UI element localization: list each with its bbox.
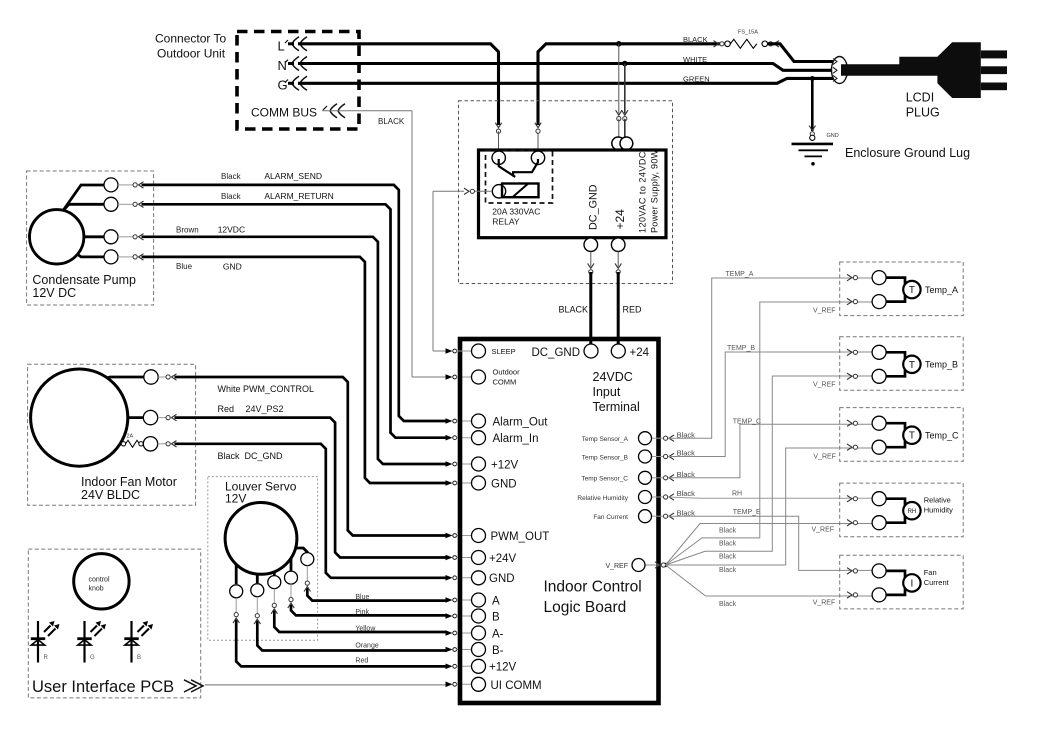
sensor Relative Humidity element xyxy=(903,502,920,519)
wire TEMP_B xyxy=(668,352,872,457)
sensor Temp_C terminal bottom xyxy=(872,440,886,454)
sensor Fan Current entry bottom xyxy=(847,592,858,598)
pin GND xyxy=(472,476,486,490)
wire plug to ground lug xyxy=(810,76,815,81)
svg-text:R: R xyxy=(44,655,49,661)
wire ALARM_RETURN xyxy=(118,203,134,205)
louver servo box xyxy=(208,477,318,641)
wire Orange to B- xyxy=(256,597,258,616)
wire motor DC_GND xyxy=(158,443,167,445)
relay coil xyxy=(502,184,539,198)
svg-text:L: L xyxy=(278,39,285,54)
connector box to outdoor unit xyxy=(237,32,359,130)
svg-text:20A 330VAC: 20A 330VAC xyxy=(492,207,540,217)
pin +24V xyxy=(472,551,486,565)
transformer xyxy=(612,137,625,150)
pump terminal alarm_return xyxy=(104,197,118,211)
sensor Temp_C element xyxy=(903,427,920,444)
svg-text:T: T xyxy=(909,360,915,371)
motor terminal pwm xyxy=(144,370,158,384)
servo terminal blue xyxy=(301,553,314,566)
svg-text:UI COMM: UI COMM xyxy=(491,680,542,692)
sensor Temp_C terminal top xyxy=(872,416,886,430)
pin Temp Sensor_A xyxy=(652,437,665,439)
svg-text:TEMP_E: TEMP_E xyxy=(733,509,761,516)
sensor Temp_C bracket xyxy=(886,423,905,447)
sensor Relative Humidity entry top xyxy=(847,496,858,502)
svg-text:control: control xyxy=(89,577,110,584)
sensor box Temp_C xyxy=(840,408,964,462)
sensor Temp_B terminal bottom xyxy=(872,369,886,383)
svg-text:RH: RH xyxy=(908,509,917,515)
sensor Relative Humidity terminal top xyxy=(872,492,886,506)
sensor Temp_A bracket xyxy=(886,278,905,302)
svg-text:Relative Humidity: Relative Humidity xyxy=(577,495,628,502)
svg-text:Humidity: Humidity xyxy=(924,506,953,515)
svg-text:12VDC: 12VDC xyxy=(218,225,245,235)
sensor Temp_B bracket xyxy=(886,352,905,376)
svg-text:DC_GND: DC_GND xyxy=(245,451,284,461)
wire Blue to A xyxy=(306,566,308,583)
relay contact terminal 1 xyxy=(492,151,505,164)
relay sub-box xyxy=(486,151,553,204)
svg-text:BLACK: BLACK xyxy=(683,35,708,44)
svg-text:Red: Red xyxy=(355,658,368,665)
svg-text:+24: +24 xyxy=(630,347,650,359)
svg-text:A: A xyxy=(492,596,500,608)
svg-text:V_REF: V_REF xyxy=(813,600,836,607)
wire G to plug (GREEN) xyxy=(298,78,833,83)
svg-text:+12V: +12V xyxy=(491,460,519,472)
relay switch contacts xyxy=(499,159,516,177)
svg-text:GND: GND xyxy=(223,261,242,271)
svg-text:12V DC: 12V DC xyxy=(32,286,76,300)
pin A xyxy=(472,593,486,607)
svg-text:DC_GND: DC_GND xyxy=(531,347,580,359)
pin Alarm_Out xyxy=(472,414,486,428)
svg-text:LCDI: LCDI xyxy=(906,91,934,105)
svg-text:GREEN: GREEN xyxy=(683,75,710,84)
pin Fan Current xyxy=(652,515,665,517)
LED G xyxy=(77,621,106,663)
svg-text:Temp Sensor_A: Temp Sensor_A xyxy=(582,436,629,443)
pin Relative Humidity xyxy=(652,496,665,498)
sensor box Fan Current xyxy=(840,555,964,609)
wire relay to fuse (BLACK) xyxy=(537,131,539,152)
wire TEMP_A xyxy=(668,278,872,438)
plug prong 3 xyxy=(981,83,1007,91)
pin +12V2 xyxy=(472,659,486,673)
pin DC_GND input xyxy=(584,344,598,358)
svg-text:B: B xyxy=(137,655,141,661)
sensor Temp_C entry bottom xyxy=(847,444,858,450)
svg-text:White PWM_CONTROL: White PWM_CONTROL xyxy=(218,384,315,394)
wire supply DC_GND to board (BLACK) xyxy=(590,252,592,267)
svg-text:Temp_C: Temp_C xyxy=(925,431,959,441)
svg-text:GND: GND xyxy=(491,479,517,491)
louver servo body xyxy=(225,503,297,575)
svg-text:ALARM_SEND: ALARM_SEND xyxy=(264,171,322,181)
svg-text:PLUG: PLUG xyxy=(906,106,940,120)
pump terminal alarm_send xyxy=(104,178,118,192)
svg-text:B-: B- xyxy=(492,645,504,657)
wire 24V_PS2 xyxy=(158,417,167,419)
wire Pink to B xyxy=(290,584,292,599)
supply output terminal DC_GND xyxy=(584,238,598,252)
sensor Temp_A terminal bottom xyxy=(872,295,886,309)
motor terminal 24v xyxy=(143,410,157,424)
wire sleep entry xyxy=(446,348,457,354)
svg-text:Current: Current xyxy=(924,578,950,587)
svg-text:Relative: Relative xyxy=(924,496,951,505)
svg-text:FS_15A: FS_15A xyxy=(738,30,758,36)
sensor Temp_B entry top xyxy=(847,349,858,355)
svg-text:2A: 2A xyxy=(127,434,134,440)
wires servo to its terminals xyxy=(235,564,238,584)
sensor Fan Current element xyxy=(903,574,920,591)
wires pump to its terminals xyxy=(62,185,104,212)
svg-text:+12V: +12V xyxy=(489,662,517,674)
pin Alarm_In xyxy=(472,431,486,445)
wire pump GND xyxy=(118,256,134,258)
svg-text:Temp_B: Temp_B xyxy=(925,360,958,370)
svg-text:Outdoor: Outdoor xyxy=(493,368,521,377)
svg-text:G: G xyxy=(278,77,288,92)
pump terminal gnd xyxy=(104,250,118,264)
wire COMM BUS to outdoor comm pin xyxy=(322,110,412,112)
svg-text:+24: +24 xyxy=(613,209,627,230)
svg-text:knob: knob xyxy=(89,586,104,593)
svg-text:SLEEP: SLEEP xyxy=(492,347,516,356)
svg-text:24V BLDC: 24V BLDC xyxy=(81,488,140,502)
svg-text:COMM: COMM xyxy=(493,378,517,387)
svg-text:BLACK: BLACK xyxy=(558,305,588,315)
svg-text:Temp Sensor_B: Temp Sensor_B xyxy=(582,454,628,461)
sensor Temp_B terminal top xyxy=(872,345,886,359)
sensor Relative Humidity terminal bottom xyxy=(872,516,886,530)
sensor Temp_B element xyxy=(903,356,920,373)
wire white junction to transformer xyxy=(624,64,626,114)
svg-text:Indoor Fan Motor: Indoor Fan Motor xyxy=(81,475,177,489)
svg-text:I: I xyxy=(911,578,914,589)
svg-text:RED: RED xyxy=(623,305,643,315)
svg-text:12V: 12V xyxy=(225,492,246,506)
arrow UI comm xyxy=(184,680,203,692)
wire black junction to transformer xyxy=(618,44,620,114)
svg-text:Power Supply, 90W: Power Supply, 90W xyxy=(650,149,660,233)
svg-text:B: B xyxy=(492,612,500,624)
wire relay coil to sleep pin xyxy=(474,190,492,192)
svg-text:Logic Board: Logic Board xyxy=(544,599,627,616)
svg-text:Brown: Brown xyxy=(176,226,199,235)
LED B xyxy=(124,621,153,663)
svg-text:TEMP_C: TEMP_C xyxy=(733,419,761,426)
svg-text:V_REF: V_REF xyxy=(605,563,628,570)
sensor Temp_A element xyxy=(903,281,920,298)
pin UI COMM xyxy=(472,677,486,691)
svg-text:T: T xyxy=(909,285,915,296)
svg-text:Alarm_In: Alarm_In xyxy=(493,433,539,445)
svg-text:Black: Black xyxy=(719,541,737,548)
svg-text:Black: Black xyxy=(719,601,737,608)
power supply box xyxy=(479,150,667,238)
svg-text:Outdoor Unit: Outdoor Unit xyxy=(157,47,226,61)
svg-text:Black: Black xyxy=(218,451,241,461)
svg-text:Black: Black xyxy=(719,528,737,535)
svg-text:V_REF: V_REF xyxy=(813,308,836,315)
sensor box Temp_A xyxy=(840,262,964,316)
svg-text:V_REF: V_REF xyxy=(812,527,835,534)
relay coil terminal xyxy=(492,185,505,198)
pin Temp Sensor_C xyxy=(652,477,665,479)
pin Temp Sensor_B xyxy=(652,456,665,458)
svg-text:Fan: Fan xyxy=(924,568,937,577)
sensor box Temp_B xyxy=(840,337,964,391)
svg-text:Indoor Control: Indoor Control xyxy=(544,579,642,596)
svg-text:Black: Black xyxy=(221,192,242,201)
wire pump 12VDC xyxy=(118,236,134,238)
ground symbol enclosure ground lug xyxy=(792,143,834,146)
plug prong 2 xyxy=(981,66,1007,74)
svg-text:Black: Black xyxy=(719,554,737,561)
svg-text:RELAY: RELAY xyxy=(492,217,520,227)
svg-text:T: T xyxy=(909,431,915,442)
svg-text:G: G xyxy=(90,655,95,661)
wire L to relay xyxy=(298,44,499,125)
wire V_REF to Temp_B xyxy=(666,376,873,565)
svg-text:Yellow: Yellow xyxy=(355,626,376,633)
svg-text:+24V: +24V xyxy=(489,553,517,565)
LCDI plug body xyxy=(841,42,981,98)
sensor Temp_A entry bottom xyxy=(847,298,858,304)
sensor Temp_B entry bottom xyxy=(847,373,858,379)
svg-text:Black: Black xyxy=(677,489,696,498)
svg-text:WHITE: WHITE xyxy=(683,55,707,64)
wire ALARM_SEND xyxy=(118,184,134,186)
svg-text:COMM BUS: COMM BUS xyxy=(251,106,317,120)
pin B xyxy=(472,609,486,623)
power supply enclosure box xyxy=(459,101,673,284)
wire UI COMM xyxy=(205,684,447,686)
svg-text:Black: Black xyxy=(719,567,737,574)
pin B- xyxy=(472,643,486,657)
wire V_REF to Relative Humidity xyxy=(666,524,873,566)
condensate pump body xyxy=(30,210,84,264)
pin GND2 xyxy=(472,571,486,585)
pin A- xyxy=(472,626,486,640)
supply output terminal +24 xyxy=(611,238,625,252)
sensor Temp_A terminal top xyxy=(872,271,886,285)
sensor Fan Current terminal bottom xyxy=(872,588,886,602)
svg-text:Orange: Orange xyxy=(355,643,378,650)
sensor Temp_A entry top xyxy=(847,274,858,280)
plug inlet connector xyxy=(832,57,848,84)
wire V_REF to Fan Current xyxy=(666,565,873,596)
servo terminal pink xyxy=(285,571,298,584)
V_REF junction xyxy=(663,563,667,567)
wire supply +24 to board (RED) xyxy=(617,252,619,267)
junction white to supply xyxy=(622,61,628,67)
relay contact terminal 2 xyxy=(531,151,544,164)
svg-text:DC_GND: DC_GND xyxy=(588,184,600,230)
svg-text:Temp Sensor_C: Temp Sensor_C xyxy=(581,476,628,483)
svg-text:RH: RH xyxy=(732,491,742,498)
pin PWM_OUT xyxy=(472,529,486,543)
svg-text:V_REF: V_REF xyxy=(813,454,836,461)
svg-text:Fan Current: Fan Current xyxy=(593,514,628,521)
sensor Relative Humidity entry bottom xyxy=(847,520,858,526)
svg-text:Pink: Pink xyxy=(355,609,369,616)
sensor Relative Humidity bracket xyxy=(886,499,905,523)
wire V_REF to Temp_A xyxy=(666,302,873,565)
servo terminal red xyxy=(230,585,243,598)
motor terminal dc_gnd xyxy=(143,437,157,451)
svg-text:Temp_A: Temp_A xyxy=(925,285,958,295)
servo terminal yellow xyxy=(268,576,281,589)
svg-text:TEMP_B: TEMP_B xyxy=(727,345,755,352)
fuse 2A xyxy=(121,442,125,446)
svg-text:TEMP_A: TEMP_A xyxy=(725,271,753,278)
wire PWM_CONTROL xyxy=(158,376,167,378)
sensor box Relative Humidity xyxy=(840,483,964,537)
sensor Fan Current bracket xyxy=(886,571,905,595)
sensor Temp_C entry top xyxy=(847,420,858,426)
svg-text:PWM_OUT: PWM_OUT xyxy=(491,531,550,543)
svg-text:N: N xyxy=(278,58,287,73)
wires motor to its terminals xyxy=(100,377,144,380)
pin +24 input xyxy=(611,344,625,358)
pin SLEEP xyxy=(472,344,486,358)
svg-text:GND: GND xyxy=(489,573,515,585)
wire V_REF to Temp_C xyxy=(666,448,873,565)
condensate pump box xyxy=(27,171,154,305)
wire TEMP_C xyxy=(668,424,872,478)
wire RH xyxy=(668,497,872,498)
wire Yellow to A- xyxy=(273,589,275,606)
indoor control logic board xyxy=(460,339,659,703)
svg-text:Blue: Blue xyxy=(355,594,369,601)
wire fuse to plug xyxy=(768,44,833,62)
LED R xyxy=(31,621,60,663)
wire Red to +12V xyxy=(235,598,237,615)
svg-text:Terminal: Terminal xyxy=(593,400,640,414)
svg-text:24VDC: 24VDC xyxy=(593,370,633,384)
indoor fan motor box xyxy=(28,364,196,505)
svg-text:120VAC to 24VDC: 120VAC to 24VDC xyxy=(638,151,648,233)
svg-text:24V_PS2: 24V_PS2 xyxy=(246,404,284,414)
pin OutdoorCOMM xyxy=(472,370,486,384)
servo terminal orange xyxy=(251,584,264,597)
svg-text:Enclosure Ground Lug: Enclosure Ground Lug xyxy=(845,146,970,160)
sensor Fan Current terminal top xyxy=(872,564,886,578)
fuse FS_15A xyxy=(725,41,731,47)
indoor fan motor body xyxy=(31,369,128,466)
wire N to plug (WHITE) xyxy=(298,64,833,71)
svg-text:Connector To: Connector To xyxy=(155,32,226,46)
plug prong 1 xyxy=(981,50,1007,58)
pin +12V xyxy=(472,457,486,471)
svg-text:A-: A- xyxy=(492,629,504,641)
svg-text:Alarm_Out: Alarm_Out xyxy=(493,417,549,429)
svg-text:Condensate Pump: Condensate Pump xyxy=(32,273,136,287)
control knob xyxy=(74,554,129,609)
svg-text:Black: Black xyxy=(221,172,242,181)
wire TEMP_E xyxy=(668,516,872,570)
svg-text:Blue: Blue xyxy=(176,262,193,271)
svg-text:V_REF: V_REF xyxy=(813,382,836,389)
sensor Fan Current entry top xyxy=(847,568,858,574)
junction black to supply xyxy=(616,41,622,47)
pin V_REF xyxy=(645,564,666,566)
svg-text:User Interface PCB: User Interface PCB xyxy=(32,678,174,696)
svg-text:Red: Red xyxy=(218,404,235,414)
svg-text:BLACK: BLACK xyxy=(378,117,405,126)
svg-text:GND: GND xyxy=(827,133,839,139)
user interface PCB box xyxy=(28,549,200,698)
svg-text:Input: Input xyxy=(593,385,621,399)
svg-text:ALARM_RETURN: ALARM_RETURN xyxy=(264,191,333,201)
pump terminal 12vdc xyxy=(104,230,118,244)
